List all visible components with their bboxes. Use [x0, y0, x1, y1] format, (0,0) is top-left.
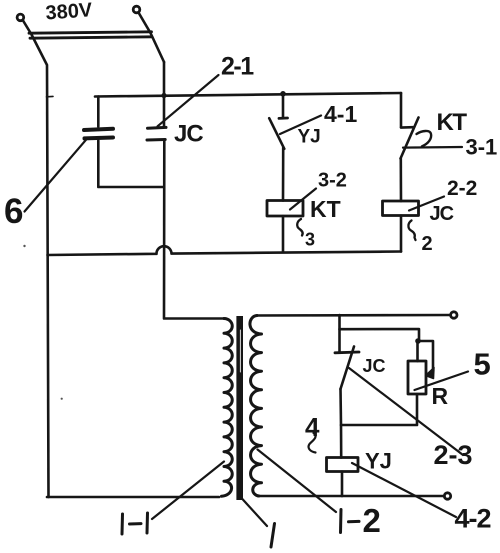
- svg-text:R: R: [432, 383, 449, 409]
- svg-text:2-1: 2-1: [221, 53, 254, 81]
- svg-text:KT: KT: [437, 109, 468, 136]
- svg-text:KT: KT: [310, 196, 341, 222]
- svg-text:2: 2: [422, 233, 433, 255]
- svg-text:4: 4: [305, 412, 320, 442]
- svg-text:3: 3: [305, 230, 315, 250]
- svg-text:YJ: YJ: [365, 449, 392, 474]
- svg-text:380V: 380V: [45, 0, 94, 24]
- svg-text:3-2: 3-2: [318, 170, 347, 192]
- svg-text:4-1: 4-1: [324, 101, 357, 127]
- svg-text:2: 2: [363, 502, 381, 539]
- svg-text:5: 5: [474, 347, 491, 382]
- svg-text:2-2: 2-2: [447, 177, 477, 200]
- svg-text:JC: JC: [430, 203, 454, 225]
- svg-text:4-2: 4-2: [455, 504, 491, 534]
- svg-text:6: 6: [4, 192, 23, 231]
- svg-text:YJ: YJ: [298, 127, 321, 148]
- svg-text:JC: JC: [363, 356, 386, 376]
- svg-text:2-3: 2-3: [434, 440, 473, 470]
- svg-text:3-1: 3-1: [466, 135, 498, 160]
- svg-text:JC: JC: [174, 121, 203, 148]
